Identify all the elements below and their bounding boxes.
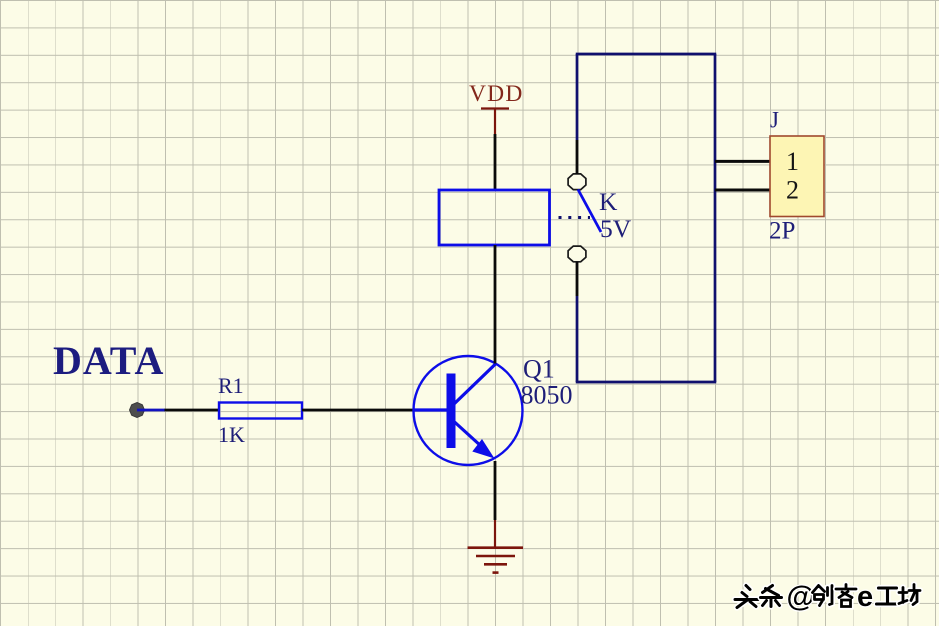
pin 1 wire: [715, 160, 770, 163]
wire relay coil to Q1 collector: [494, 245, 497, 364]
svg-text:VDD: VDD: [469, 81, 524, 107]
wire node to R1: [165, 409, 221, 412]
svg-text:Q1: Q1: [523, 355, 555, 384]
transistor Q1: [413, 356, 523, 465]
switch K contact bottom: [568, 246, 586, 262]
power VDD: [469, 81, 524, 134]
wire loop bottom: [576, 381, 717, 384]
wire switch top pin stub: [576, 140, 579, 174]
wire loop left lower: [576, 296, 579, 382]
switch K blade: [578, 190, 601, 233]
relay coil K: [439, 190, 550, 245]
switch K contact top: [568, 174, 586, 190]
svg-text:2: 2: [786, 176, 799, 205]
ground: [468, 520, 524, 573]
wire node stub (blue): [137, 409, 165, 412]
svg-text:2P: 2P: [769, 218, 795, 245]
wire loop top: [576, 53, 717, 56]
svg-text:R1: R1: [218, 373, 244, 398]
node DATA input dot: [130, 403, 145, 418]
svg-text:@: @: [787, 581, 815, 613]
wire R1 to Q1 base: [302, 409, 414, 412]
svg-text:K: K: [599, 187, 618, 216]
svg-text:J: J: [770, 108, 779, 133]
connector J body: [770, 136, 824, 217]
wire VDD to relay coil: [494, 134, 497, 190]
watermark 头条 @创客e工坊: [735, 581, 920, 613]
wire loop right: [714, 54, 717, 382]
svg-text:5V: 5V: [600, 214, 632, 243]
dashed actuator link: [559, 216, 591, 219]
svg-text:DATA: DATA: [53, 338, 164, 383]
pin 2 wire: [715, 189, 770, 192]
svg-text:1K: 1K: [218, 422, 245, 447]
svg-text:8050: 8050: [521, 381, 573, 410]
wire loop left upper: [576, 54, 579, 140]
svg-text:1: 1: [786, 147, 799, 176]
resistor R1: [219, 403, 302, 419]
wire switch bottom pin stub: [576, 262, 579, 296]
svg-text:e: e: [857, 581, 873, 613]
wire Q1 emitter to ground: [494, 461, 497, 520]
